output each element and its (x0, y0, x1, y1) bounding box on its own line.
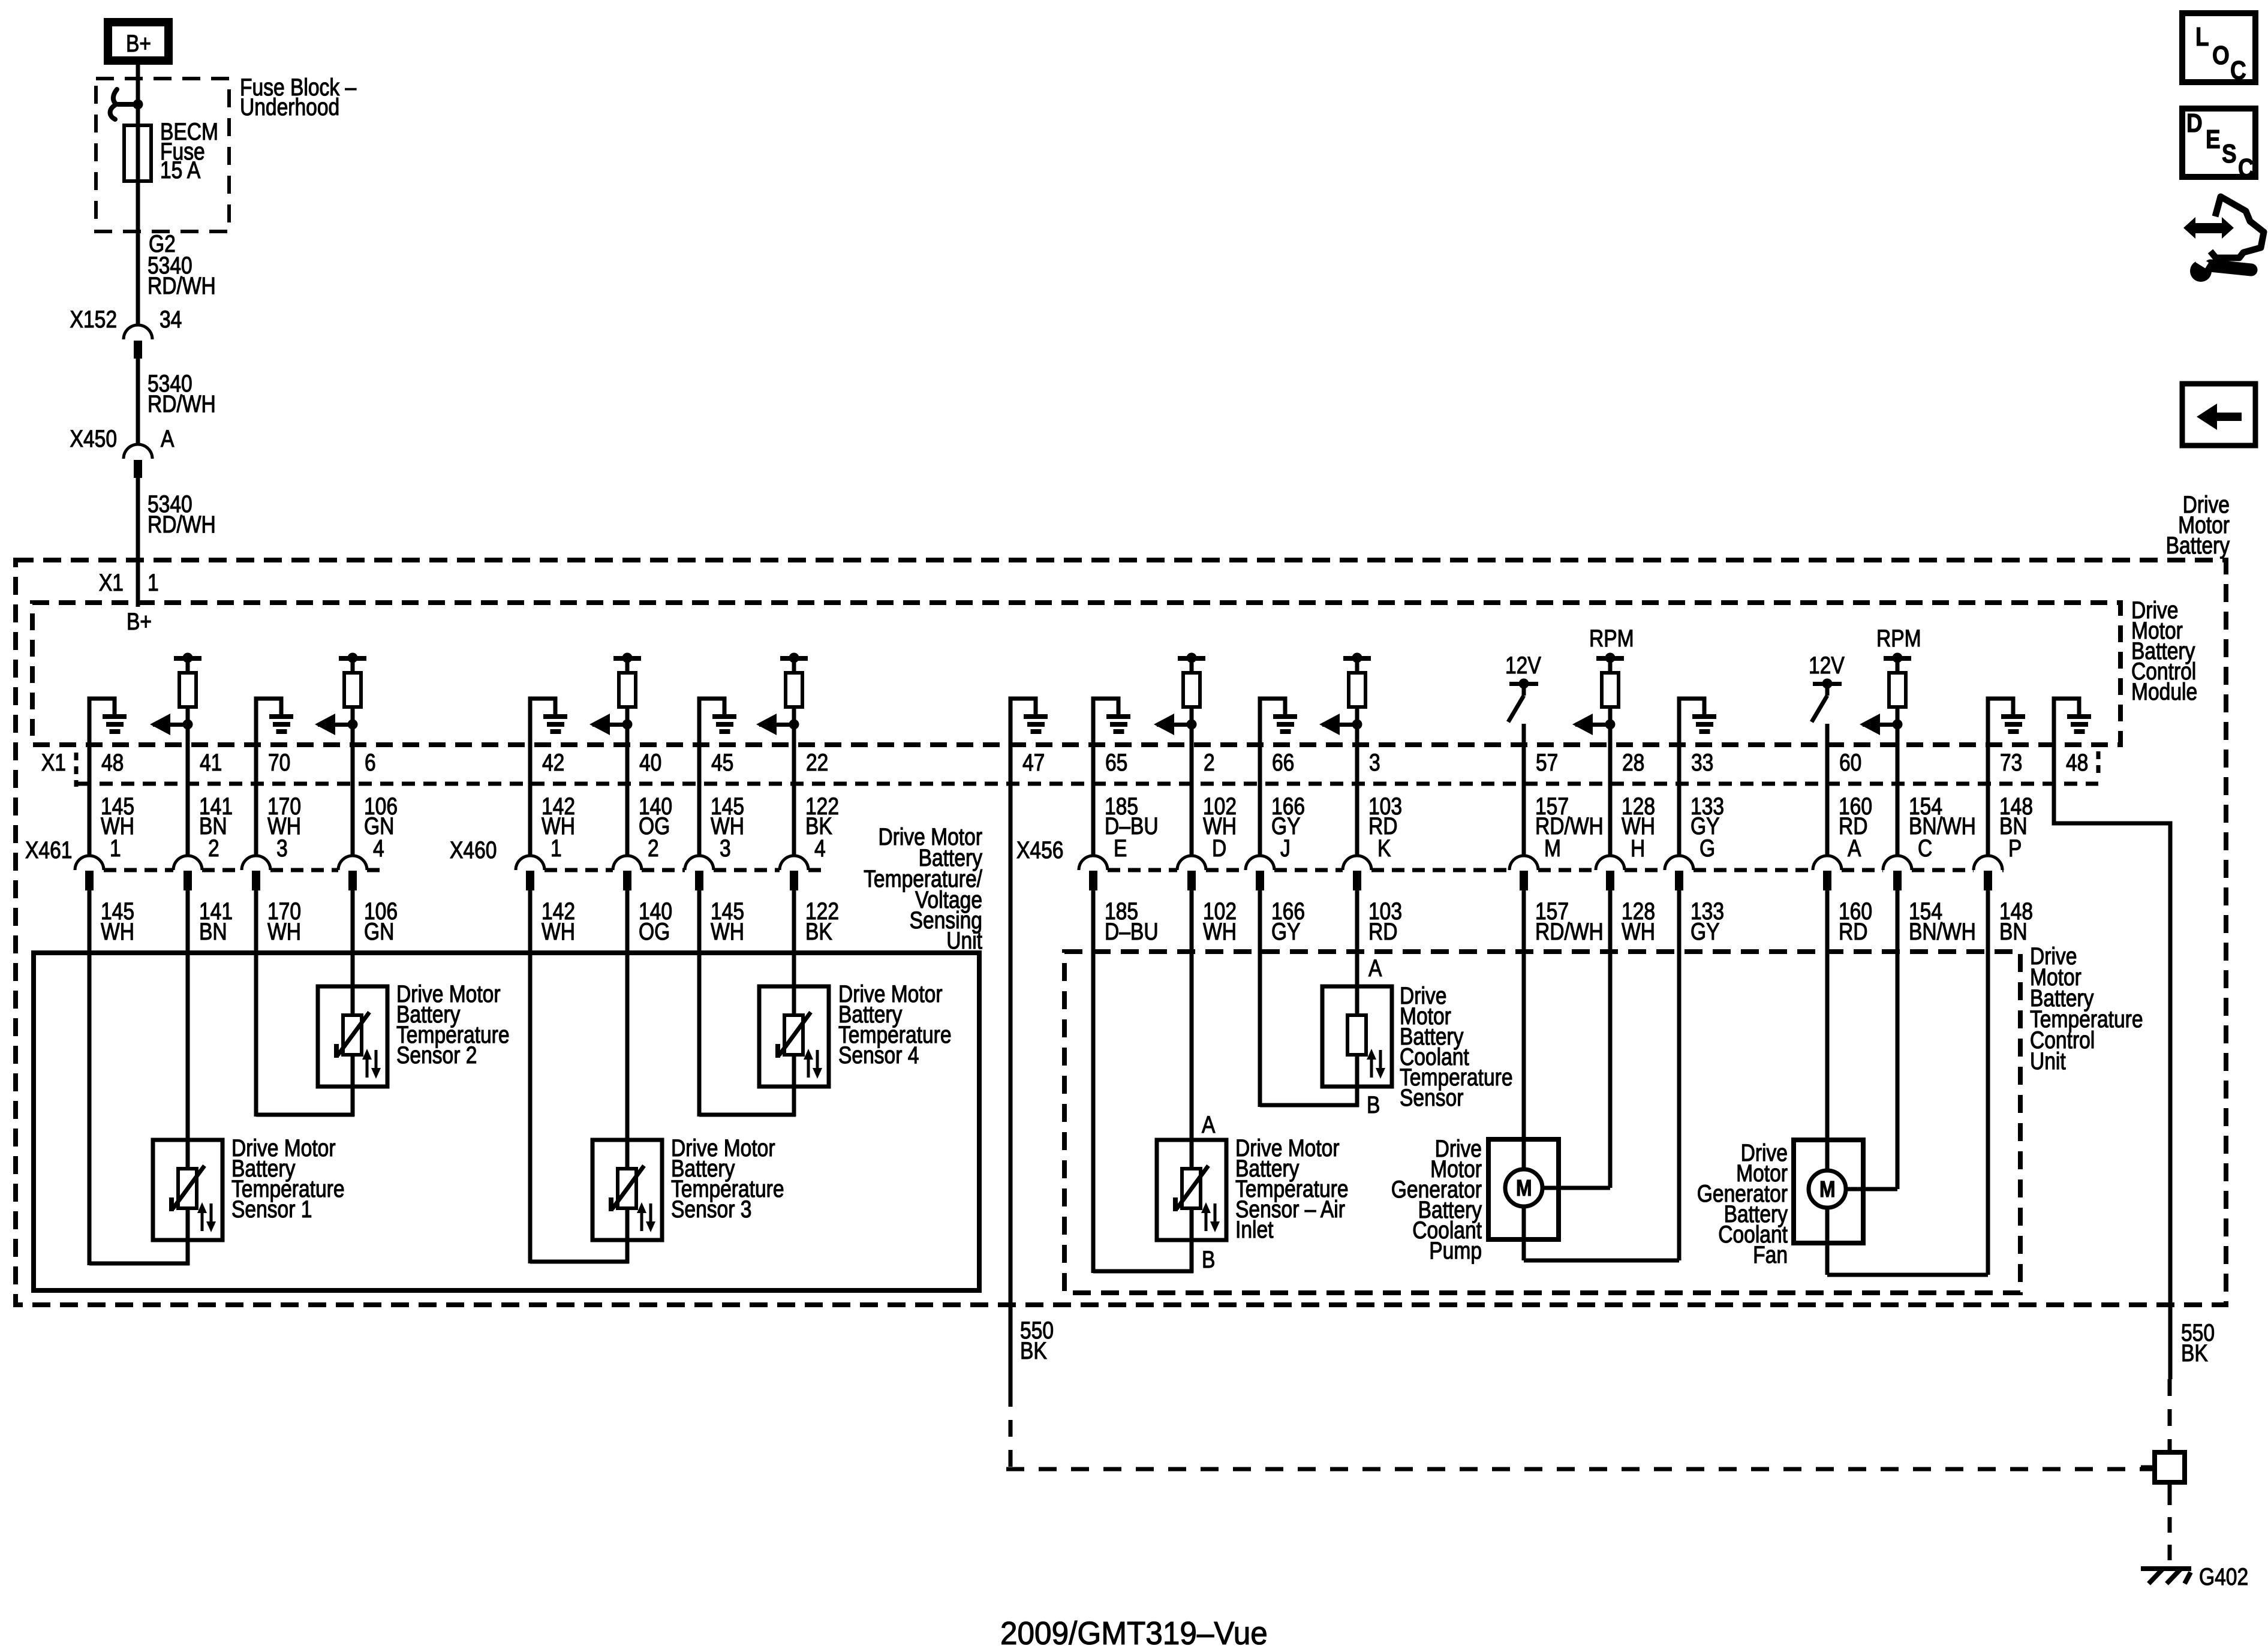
svg-text:L: L (2195, 22, 2209, 52)
svg-text:3: 3 (720, 835, 731, 861)
svg-text:B+: B+ (127, 608, 152, 634)
sensor interconnect wire 145WH to sensor4 (699, 1113, 796, 1117)
svg-text:D: D (1212, 835, 1226, 861)
svg-text:4: 4 (814, 835, 826, 861)
label B+ module pin (127, 608, 152, 634)
svg-text:WH: WH (101, 918, 134, 944)
resistor RPM pin 28 (1572, 653, 1624, 736)
inline connector X450 (124, 444, 152, 478)
Drive Motor Battery Temperature Control Unit dashed box (1064, 952, 2020, 1293)
label Drive Motor Battery Temperature Voltage Sensing Unit (864, 823, 983, 953)
fuse BECM body (124, 125, 151, 181)
label Temperature Sensor 1 (231, 1135, 345, 1222)
svg-text:34: 34 (160, 306, 182, 332)
svg-text:BK: BK (1020, 1337, 1047, 1364)
svg-text:41: 41 (200, 749, 222, 775)
label Temperature Sensor Air Inlet (1235, 1135, 1349, 1242)
svg-text:B: B (1367, 1091, 1380, 1118)
svg-text:Sensor 2: Sensor 2 (396, 1042, 477, 1068)
label RPM left (1589, 625, 1634, 651)
circuit number labels below connectors (101, 898, 2033, 944)
label X456 (1016, 836, 1063, 863)
label Drive Motor Battery Temperature Control Unit (2030, 943, 2143, 1074)
svg-text:O: O (2212, 40, 2230, 70)
svg-text:Unit: Unit (2030, 1048, 2066, 1074)
svg-text:Inlet: Inlet (1235, 1216, 1273, 1242)
fuse element hook (110, 89, 143, 119)
svg-text:X1: X1 (41, 749, 66, 775)
label pin A air inlet sensor (1202, 1111, 1216, 1138)
pump motor bottom lead to 133GY (1524, 1206, 1679, 1260)
resistive Drive Motor Battery Coolant Temperature Sensor (1322, 986, 1392, 1087)
fan motor bottom lead to 148BN (1827, 1208, 1988, 1275)
ground pin 70 (256, 699, 293, 734)
svg-text:C: C (2230, 55, 2246, 85)
ground pin 45 (699, 699, 736, 734)
resistor pin 40 (589, 653, 641, 736)
X1 row right end cap (2096, 751, 2101, 777)
label Drive Motor Battery Control Module (2131, 597, 2197, 705)
svg-text:4: 4 (373, 835, 384, 861)
thermistor Drive Motor Battery Temperature Sensor 3 (592, 1140, 662, 1240)
resistor RPM pin C (1860, 653, 1911, 736)
svg-text:1: 1 (110, 835, 121, 861)
svg-text:65: 65 (1105, 749, 1127, 775)
svg-text:P: P (2008, 835, 2022, 861)
icon DESC box (2182, 108, 2255, 183)
label Temperature Sensor 4 (838, 980, 952, 1068)
svg-text:3: 3 (276, 835, 288, 861)
svg-text:Sensor: Sensor (1400, 1084, 1463, 1111)
label BECM Fuse 15A (160, 118, 218, 183)
resistor pin 41 (150, 653, 201, 736)
motor M Drive Motor Generator Battery Coolant Fan (1809, 1170, 1846, 1208)
connector pin letters (110, 835, 2022, 861)
label 550 BK right (2181, 1319, 2215, 1366)
svg-text:OG: OG (639, 918, 670, 944)
svg-text:BK: BK (2181, 1340, 2208, 1366)
wires from connectors down (89, 890, 1988, 1275)
thermistor Drive Motor Battery Temperature Sensor Air Inlet (1157, 1140, 1226, 1240)
connector terminal X456-P (1974, 856, 2002, 890)
svg-text:15 A: 15 A (160, 157, 201, 183)
svg-text:60: 60 (1839, 749, 1861, 775)
svg-text:GY: GY (1271, 918, 1301, 944)
svg-text:73: 73 (2000, 749, 2022, 775)
icon panel with arrow and wrench (2183, 197, 2264, 282)
connector terminal X461-3 (242, 856, 270, 890)
svg-text:X152: X152 (70, 306, 117, 332)
inline connector X152 (124, 325, 152, 359)
label RPM right (1876, 625, 1921, 651)
svg-text:H: H (1631, 835, 1645, 861)
label 550 BK left (1020, 1317, 1054, 1364)
svg-text:BN/WH: BN/WH (1909, 918, 1976, 944)
svg-text:E: E (1114, 835, 1127, 861)
svg-text:RD: RD (1368, 918, 1398, 944)
pump motor right lead to 128WH (1542, 1186, 1610, 1190)
sensor interconnect wire 185D-BU to air inlet sensor (1093, 1269, 1193, 1274)
svg-text:X456: X456 (1016, 836, 1063, 863)
B+ battery feed terminal box (108, 22, 169, 61)
svg-text:X460: X460 (450, 836, 497, 863)
ground pin 73 (1988, 699, 2025, 734)
ground pin 66 (1260, 699, 1297, 734)
sensor interconnect wire 145WH to sensor1 (89, 1262, 189, 1266)
svg-text:Battery: Battery (2166, 532, 2230, 558)
wires from module to connectors (89, 699, 1988, 856)
svg-text:57: 57 (1536, 749, 1558, 775)
icon back arrow box (2182, 384, 2255, 446)
title 2009/GMT319-Vue (1000, 1615, 1268, 1649)
connector terminal X456-G (1665, 856, 1694, 890)
connector terminal X456-H (1596, 856, 1625, 890)
svg-text:A: A (1848, 835, 1861, 861)
svg-text:GY: GY (1691, 918, 1720, 944)
motor M Drive Motor Generator Battery Coolant Pump (1505, 1169, 1542, 1206)
svg-text:A: A (1368, 955, 1382, 981)
svg-text:BN: BN (199, 918, 227, 944)
svg-text:X450: X450 (70, 425, 117, 452)
svg-text:RPM: RPM (1876, 625, 1921, 651)
svg-text:D: D (2186, 108, 2203, 138)
svg-text:66: 66 (1272, 749, 1294, 775)
fan motor box (1794, 1140, 1863, 1243)
svg-text:45: 45 (711, 749, 733, 775)
svg-text:RD/WH: RD/WH (1535, 918, 1604, 944)
label X450 connector (70, 425, 175, 452)
ground pin 65 (1093, 699, 1130, 734)
svg-text:33: 33 (1691, 749, 1713, 775)
svg-text:B+: B+ (126, 30, 151, 56)
label G2 pin (149, 230, 176, 257)
svg-text:C: C (2238, 153, 2254, 183)
svg-text:RD: RD (1839, 918, 1868, 944)
svg-text:X461: X461 (25, 836, 72, 863)
svg-text:WH: WH (711, 918, 744, 944)
svg-text:Fan: Fan (1753, 1241, 1788, 1268)
dashed wire below splice to ground (2168, 1489, 2172, 1565)
svg-text:A: A (161, 425, 175, 452)
ground pin 47 (1010, 699, 1048, 734)
svg-text:S: S (2222, 139, 2237, 168)
wire B+ feed vertical (136, 61, 140, 325)
svg-text:E: E (2206, 124, 2221, 154)
ground pin 48 left (89, 699, 127, 734)
svg-text:G402: G402 (2199, 1563, 2248, 1590)
svg-text:WH: WH (1203, 918, 1237, 944)
thermistor Drive Motor Battery Temperature Sensor 1 (153, 1140, 222, 1240)
connector terminal X460-1 (516, 856, 545, 890)
svg-text:RD/WH: RD/WH (148, 511, 216, 537)
svg-text:BN: BN (1999, 918, 2028, 944)
svg-text:12V: 12V (1505, 652, 1541, 678)
svg-text:RPM: RPM (1589, 625, 1634, 651)
svg-text:6: 6 (365, 749, 376, 775)
thermistor Drive Motor Battery Temperature Sensor 2 (318, 986, 387, 1087)
label Coolant Pump (1391, 1135, 1482, 1263)
X460 connector dashed line (545, 868, 825, 872)
label pin A coolant sensor (1368, 955, 1382, 981)
svg-text:D–BU: D–BU (1105, 918, 1159, 944)
svg-text:48: 48 (101, 749, 124, 775)
svg-text:Underhood: Underhood (240, 94, 339, 120)
svg-text:M: M (1819, 1176, 1836, 1202)
connector terminal X456-D (1177, 856, 1206, 890)
fuse block underhood dashed box (96, 79, 229, 231)
circuit number labels above connectors (101, 793, 2033, 839)
connector terminal X456-M (1509, 856, 1538, 890)
fan motor right lead to 154BN/WH (1846, 1187, 1897, 1191)
svg-text:M: M (1516, 1175, 1532, 1200)
wire 5340 RD/WH segment 3 (136, 478, 140, 607)
svg-text:Module: Module (2131, 678, 2197, 705)
svg-text:42: 42 (542, 749, 564, 775)
svg-text:2: 2 (648, 835, 659, 861)
switch 12V pin 57 (1505, 652, 1541, 722)
svg-text:2: 2 (1204, 749, 1215, 775)
icon LOC box (2182, 13, 2255, 85)
label pin B air inlet sensor (1202, 1246, 1215, 1272)
svg-text:WH: WH (267, 918, 301, 944)
svg-text:D–BU: D–BU (1105, 813, 1159, 839)
ground pin 48 right (2054, 699, 2091, 734)
svg-text:G: G (1700, 835, 1715, 861)
svg-text:J: J (1280, 835, 1291, 861)
label Temperature Sensor 2 (396, 980, 510, 1068)
svg-text:22: 22 (806, 749, 828, 775)
sensor interconnect wire 170WH to sensor2 (256, 1113, 354, 1117)
X1 row left end cap (74, 753, 79, 787)
wire 5340 RD/WH segment 2 (136, 359, 140, 444)
label X1 1 top (99, 569, 159, 595)
svg-text:Unit: Unit (946, 927, 982, 953)
X1 connector bottom dashed line (78, 782, 2098, 786)
svg-text:RD/WH: RD/WH (148, 390, 216, 417)
svg-text:12V: 12V (1809, 652, 1845, 678)
label X461 (25, 836, 72, 863)
wire pin 48 right to 550 BK (2054, 699, 2170, 1454)
svg-text:GN: GN (364, 918, 394, 944)
svg-text:28: 28 (1622, 749, 1644, 775)
label G402 (2199, 1563, 2248, 1590)
svg-text:Pump: Pump (1429, 1237, 1482, 1263)
label Coolant Temperature Sensor (1400, 982, 1513, 1111)
pump motor box (1488, 1139, 1559, 1239)
ground pin 33 (1679, 699, 1716, 734)
label Drive Motor Battery outer box (2166, 491, 2230, 558)
svg-text:M: M (1544, 835, 1561, 861)
connector terminal X461-2 (173, 856, 202, 890)
svg-text:Sensor 4: Sensor 4 (838, 1042, 919, 1068)
connector terminal X461-1 (75, 856, 104, 890)
connector terminal X461-4 (338, 856, 367, 890)
svg-text:K: K (1377, 835, 1391, 861)
connector terminal X456-A (1813, 856, 1842, 890)
Drive Motor Battery outer dashed box (16, 560, 2226, 1305)
svg-text:47: 47 (1022, 749, 1045, 775)
resistor pin 22 (756, 653, 808, 736)
resistor pin 2 (1154, 653, 1205, 736)
svg-text:48: 48 (2066, 749, 2088, 775)
label Temperature Sensor 3 (671, 1135, 784, 1222)
svg-text:2009/GMT319–Vue: 2009/GMT319–Vue (1000, 1615, 1268, 1649)
svg-text:BK: BK (805, 918, 832, 944)
svg-text:RD/WH: RD/WH (148, 272, 216, 299)
connector terminal X456-K (1343, 856, 1371, 890)
svg-text:1: 1 (551, 835, 562, 861)
svg-text:Sensor 1: Sensor 1 (231, 1196, 312, 1222)
X456 connector dashed line (1108, 868, 2004, 872)
svg-text:B: B (1202, 1246, 1215, 1272)
sensor interconnect wire 166GY to coolant sensor (1260, 1103, 1359, 1108)
connector terminal X456-C (1883, 856, 1912, 890)
label X1 connector row (41, 749, 66, 775)
label circuit 5340 RD/WH lower (148, 491, 216, 537)
svg-text:WH: WH (1622, 918, 1655, 944)
X1 pin numbers (101, 749, 2088, 775)
svg-text:X1: X1 (99, 569, 124, 595)
connector terminal X456-E (1079, 856, 1108, 890)
label X460 (450, 836, 497, 863)
ground pin 42 (530, 699, 567, 734)
svg-text:Sensor 3: Sensor 3 (671, 1196, 751, 1222)
svg-text:2: 2 (208, 835, 219, 861)
connector terminal X460-2 (613, 856, 642, 890)
svg-text:40: 40 (639, 749, 661, 775)
label circuit 5340 RD/WH upper (148, 252, 216, 299)
X461 connector dashed line (104, 868, 384, 872)
svg-text:WH: WH (542, 918, 575, 944)
sensor interconnect wire 142WH to sensor3 (530, 1260, 629, 1264)
Drive Motor Battery Control Module dashed box (32, 603, 2120, 745)
label Coolant Fan (1697, 1139, 1788, 1268)
resistor pin 6 (315, 653, 366, 736)
label circuit 5340 RD/WH middle (148, 370, 216, 417)
thermistor Drive Motor Battery Temperature Sensor 4 (759, 986, 829, 1087)
svg-text:1: 1 (148, 569, 159, 595)
connector terminal X460-3 (685, 856, 714, 890)
splice square S (2141, 1452, 2185, 1489)
connector terminal X456-J (1246, 856, 1274, 890)
label pin B coolant sensor (1367, 1091, 1380, 1118)
wire 47 550 BK left (1006, 699, 2155, 1470)
Drive Motor Battery Temperature/Voltage Sensing Unit box (34, 953, 979, 1290)
svg-text:A: A (1202, 1111, 1216, 1138)
svg-text:C: C (1918, 835, 1932, 861)
switch 12V pin 60 (1809, 652, 1845, 722)
svg-text:3: 3 (1369, 749, 1380, 775)
resistor pin 3 (1319, 653, 1371, 736)
label Fuse Block - Underhood (240, 74, 357, 120)
ground G402 chassis symbol (2141, 1566, 2191, 1584)
label X152 connector (70, 306, 182, 332)
connector terminal X460-4 (780, 856, 808, 890)
svg-text:70: 70 (268, 749, 290, 775)
